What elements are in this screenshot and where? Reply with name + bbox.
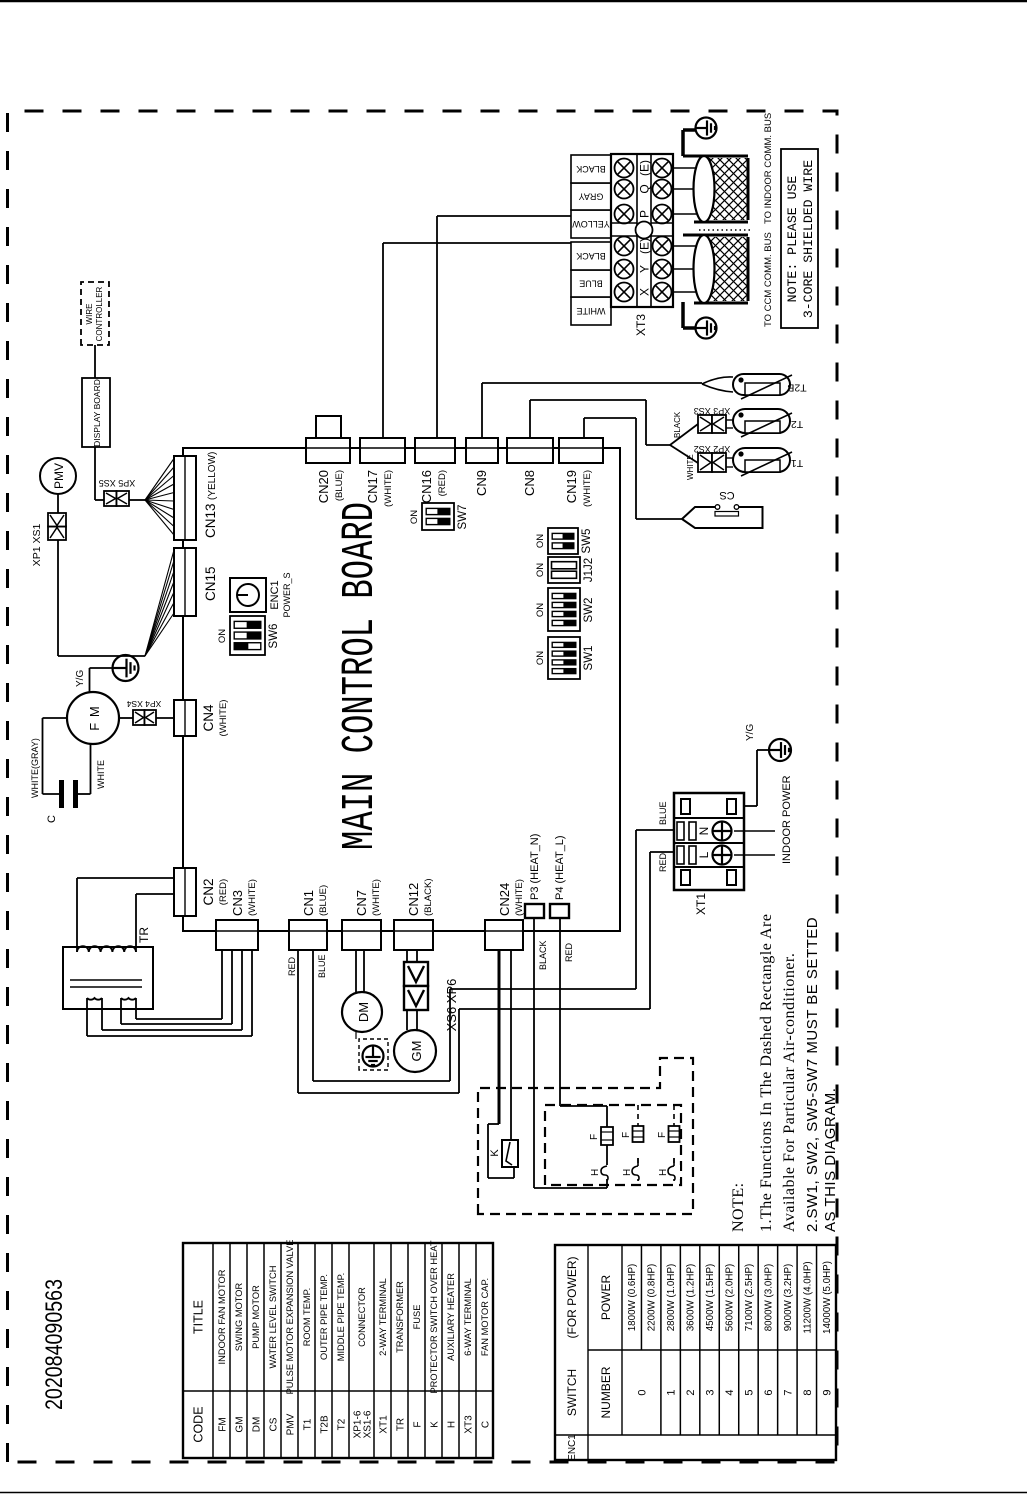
svg-text:SW6: SW6	[268, 624, 280, 649]
svg-text:F: F	[413, 1421, 424, 1427]
svg-text:BLACK: BLACK	[538, 940, 548, 970]
svg-text:POWER: POWER	[599, 1275, 613, 1321]
svg-text:X: X	[638, 288, 652, 296]
svg-text:ON: ON	[535, 651, 546, 665]
svg-text:5600W (2.0HP): 5600W (2.0HP)	[725, 1264, 736, 1332]
svg-text:(WHITE): (WHITE)	[247, 879, 258, 916]
svg-text:WHITE: WHITE	[577, 306, 606, 316]
svg-text:P3 (HEAT_N): P3 (HEAT_N)	[529, 834, 541, 900]
svg-text:BLUE: BLUE	[658, 801, 668, 825]
svg-text:DISPLAY BOARD: DISPLAY BOARD	[92, 379, 102, 447]
svg-text:RED: RED	[658, 852, 668, 872]
svg-text:SWITCH: SWITCH	[565, 1369, 579, 1416]
svg-text:BLACK: BLACK	[576, 164, 606, 174]
svg-text:WHITE: WHITE	[686, 454, 695, 480]
svg-text:ON: ON	[217, 629, 228, 643]
svg-text:SW1: SW1	[583, 646, 595, 671]
svg-text:T2B: T2B	[787, 382, 806, 394]
svg-text:SW7: SW7	[457, 505, 469, 530]
svg-text:SWING MOTOR: SWING MOTOR	[234, 1282, 244, 1351]
svg-text:Y: Y	[638, 265, 652, 273]
svg-text:TRANSFORMER: TRANSFORMER	[395, 1281, 405, 1353]
svg-text:DM: DM	[356, 1002, 371, 1022]
svg-text:(WHITE): (WHITE)	[218, 700, 229, 737]
svg-text:H: H	[622, 1169, 633, 1176]
svg-text:3-CORE SHIELDED WIRE: 3-CORE SHIELDED WIRE	[801, 160, 816, 318]
svg-text:ENC1: ENC1	[567, 1434, 578, 1461]
svg-text:1800W (0.6HP): 1800W (0.6HP)	[627, 1264, 638, 1332]
svg-text:ON: ON	[535, 563, 546, 577]
svg-text:CN8: CN8	[522, 470, 537, 496]
svg-text:AUXILIARY HEATER: AUXILIARY HEATER	[446, 1273, 456, 1361]
svg-text:XT1: XT1	[694, 893, 708, 915]
svg-text:GRAY: GRAY	[579, 192, 604, 202]
svg-text:XP1 XS1: XP1 XS1	[31, 524, 43, 567]
svg-text:TO INDOOR COMM. BUS: TO INDOOR COMM. BUS	[763, 113, 774, 224]
svg-text:NOTE:: NOTE:	[730, 1182, 747, 1232]
svg-text:YELLOW: YELLOW	[572, 219, 610, 229]
svg-text:CN3: CN3	[230, 890, 245, 916]
svg-text:(YELLOW): (YELLOW)	[207, 452, 218, 500]
svg-text:J1J2: J1J2	[583, 558, 595, 582]
svg-text:(WHITE): (WHITE)	[514, 879, 525, 916]
svg-text:CN15: CN15	[203, 566, 218, 601]
svg-text:SW5: SW5	[581, 529, 593, 554]
svg-text:SW2: SW2	[583, 598, 595, 623]
svg-text:(E): (E)	[638, 160, 652, 176]
svg-text:C: C	[46, 815, 58, 823]
svg-text:BLACK: BLACK	[673, 411, 682, 438]
svg-text:NOTE: PLEASE USE: NOTE: PLEASE USE	[785, 176, 800, 303]
svg-text:NUMBER: NUMBER	[599, 1366, 613, 1418]
svg-text:K: K	[430, 1421, 441, 1428]
svg-text:3: 3	[705, 1389, 717, 1395]
svg-text:(WHITE): (WHITE)	[383, 470, 394, 507]
svg-text:TITLE: TITLE	[192, 1300, 206, 1334]
svg-text:T2B: T2B	[320, 1415, 331, 1434]
svg-text:CONNECTOR: CONNECTOR	[357, 1287, 367, 1347]
svg-text:XP3 XS3: XP3 XS3	[694, 406, 731, 416]
svg-text:2200W (0.8HP): 2200W (0.8HP)	[647, 1264, 658, 1332]
svg-text:14000W (5.0HP): 14000W (5.0HP)	[822, 1261, 833, 1334]
svg-text:PMV: PMV	[52, 463, 66, 489]
svg-text:H: H	[590, 1169, 601, 1176]
svg-text:AS THIS DIAGRAM.: AS THIS DIAGRAM.	[822, 1088, 839, 1232]
svg-text:BLUE: BLUE	[579, 279, 603, 289]
svg-text:CN13: CN13	[203, 503, 218, 538]
svg-text:2.SW1, SW2, SW5-SW7 MUST BE SE: 2.SW1, SW2, SW5-SW7 MUST BE SETTED	[804, 917, 821, 1232]
svg-text:2-WAY TERMINAL: 2-WAY TERMINAL	[378, 1278, 388, 1356]
svg-text:202084090563: 202084090563	[41, 1279, 68, 1410]
svg-text:FM: FM	[218, 1417, 229, 1431]
svg-text:CN24: CN24	[497, 883, 512, 916]
svg-text:ON: ON	[535, 603, 546, 617]
svg-text:Q: Q	[638, 184, 652, 193]
svg-text:L: L	[697, 851, 711, 858]
svg-text:FUSE: FUSE	[412, 1305, 422, 1330]
svg-text:T2: T2	[791, 418, 803, 430]
svg-text:DM: DM	[252, 1417, 263, 1433]
svg-text:Y/G: Y/G	[75, 670, 86, 687]
svg-text:2800W (1.0HP): 2800W (1.0HP)	[666, 1264, 677, 1332]
svg-text:Y/G: Y/G	[745, 724, 756, 741]
svg-text:F: F	[621, 1132, 632, 1138]
svg-text:CN20: CN20	[316, 470, 331, 503]
svg-text:MIDDLE PIPE TEMP.: MIDDLE PIPE TEMP.	[336, 1273, 346, 1362]
svg-text:8: 8	[802, 1389, 814, 1395]
svg-text:(WHITE): (WHITE)	[582, 470, 593, 507]
svg-text:GM: GM	[235, 1416, 246, 1432]
svg-text:T2: T2	[337, 1418, 348, 1430]
svg-text:H: H	[658, 1169, 669, 1176]
svg-text:(RED): (RED)	[218, 879, 229, 905]
svg-text:XS1-6: XS1-6	[363, 1410, 374, 1438]
svg-text:K: K	[489, 1149, 501, 1157]
svg-text:(BLACK): (BLACK)	[423, 879, 434, 916]
svg-text:POWER_S: POWER_S	[282, 572, 292, 617]
svg-text:9: 9	[821, 1389, 833, 1395]
svg-text:(BLUE): (BLUE)	[318, 885, 329, 916]
svg-text:(WHITE): (WHITE)	[371, 879, 382, 916]
svg-text:MAIN CONTROL BOARD: MAIN CONTROL BOARD	[335, 502, 386, 850]
svg-text:6-WAY TERMINAL: 6-WAY TERMINAL	[463, 1278, 473, 1356]
svg-text:INDOOR POWER: INDOOR POWER	[781, 775, 793, 864]
svg-text:ENC1: ENC1	[269, 580, 281, 609]
svg-text:ON: ON	[409, 510, 420, 524]
svg-text:PMV: PMV	[286, 1413, 297, 1435]
svg-text:3600W (1.2HP): 3600W (1.2HP)	[686, 1264, 697, 1332]
svg-text:C: C	[481, 1421, 492, 1428]
svg-text:4: 4	[724, 1389, 736, 1395]
svg-text:ON: ON	[535, 534, 546, 548]
svg-text:T1: T1	[791, 457, 803, 469]
svg-text:FAN MOTOR CAP.: FAN MOTOR CAP.	[480, 1278, 490, 1356]
svg-text:CN9: CN9	[474, 470, 489, 496]
svg-text:P4 (HEAT_L): P4 (HEAT_L)	[554, 835, 566, 900]
svg-text:XT3: XT3	[634, 314, 648, 336]
svg-text:F M: F M	[87, 705, 102, 730]
svg-text:8000W (3.0HP): 8000W (3.0HP)	[763, 1264, 774, 1332]
svg-text:TO CCM COMM. BUS: TO CCM COMM. BUS	[763, 232, 774, 327]
svg-text:BLACK: BLACK	[576, 251, 606, 261]
svg-text:WATER LEVEL SWITCH: WATER LEVEL SWITCH	[268, 1266, 278, 1369]
svg-text:4500W (1.5HP): 4500W (1.5HP)	[705, 1264, 716, 1332]
svg-text:XT3: XT3	[464, 1415, 475, 1434]
svg-text:T1: T1	[303, 1418, 314, 1430]
svg-text:P: P	[638, 210, 652, 218]
svg-text:XT1: XT1	[379, 1415, 390, 1434]
svg-text:PULSE MOTOR EXPANSION VALVE: PULSE MOTOR EXPANSION VALVE	[285, 1240, 295, 1395]
svg-text:CN1: CN1	[301, 890, 316, 916]
svg-text:CODE: CODE	[192, 1406, 206, 1442]
svg-text:XP4 XS4: XP4 XS4	[126, 699, 161, 709]
svg-text:9000W (3.2HP): 9000W (3.2HP)	[783, 1264, 794, 1332]
svg-text:WIRE: WIRE	[85, 304, 94, 325]
svg-text:CONTROLLER: CONTROLLER	[95, 286, 104, 341]
svg-text:RED: RED	[564, 942, 574, 962]
svg-text:WHITE(GRAY): WHITE(GRAY)	[30, 738, 40, 798]
svg-text:H: H	[447, 1421, 458, 1428]
svg-text:(FOR POWER): (FOR POWER)	[565, 1257, 579, 1339]
svg-text:(RED): (RED)	[437, 470, 448, 496]
svg-text:6: 6	[763, 1389, 775, 1395]
svg-text:CN12: CN12	[406, 883, 421, 916]
svg-text:INDOOR FAN MOTOR: INDOOR FAN MOTOR	[217, 1269, 227, 1364]
svg-text:PUMP MOTOR: PUMP MOTOR	[251, 1285, 261, 1349]
svg-text:XP2 XS2: XP2 XS2	[694, 444, 731, 454]
svg-text:OUTER PIPE TEMP.: OUTER PIPE TEMP.	[319, 1274, 329, 1360]
svg-text:CN2: CN2	[201, 878, 216, 905]
svg-text:(BLUE): (BLUE)	[334, 470, 345, 501]
svg-text:CN19: CN19	[564, 470, 579, 503]
svg-text:CS: CS	[269, 1417, 280, 1431]
svg-text:ROOM TEMP.: ROOM TEMP.	[302, 1288, 312, 1347]
svg-text:5: 5	[743, 1389, 755, 1395]
svg-text:F: F	[589, 1134, 600, 1140]
svg-text:XP5 XS5: XP5 XS5	[99, 478, 136, 488]
svg-text:7: 7	[782, 1389, 794, 1395]
svg-text:TR: TR	[137, 927, 151, 943]
svg-text:RED: RED	[287, 956, 297, 976]
svg-text:Available For Particular Air-c: Available For Particular Air-conditioner…	[781, 953, 798, 1232]
svg-text:0: 0	[636, 1389, 648, 1395]
svg-text:GM: GM	[409, 1041, 424, 1062]
svg-text:CN4: CN4	[201, 704, 216, 731]
svg-text:XS6 XP6: XS6 XP6	[444, 979, 459, 1032]
svg-text:WHITE: WHITE	[96, 760, 106, 789]
svg-text:CS: CS	[719, 489, 734, 501]
svg-text:N: N	[697, 827, 711, 836]
svg-text:7100W (2.5HP): 7100W (2.5HP)	[744, 1264, 755, 1332]
svg-text:2: 2	[685, 1389, 697, 1395]
svg-text:1.The Functions In The Dashed: 1.The Functions In The Dashed Rectangle …	[758, 914, 775, 1232]
svg-text:11200W (4.0HP): 11200W (4.0HP)	[802, 1261, 813, 1333]
svg-text:CN16: CN16	[419, 470, 434, 503]
svg-text:(E): (E)	[638, 238, 652, 254]
svg-text:CN17: CN17	[365, 470, 380, 503]
svg-text:F: F	[657, 1132, 668, 1138]
svg-text:CN7: CN7	[354, 890, 369, 916]
svg-text:TR: TR	[396, 1418, 407, 1431]
svg-text:BLUE: BLUE	[317, 954, 327, 978]
svg-text:1: 1	[666, 1389, 678, 1395]
svg-text:PROTECTOR SWITCH OVER HEAT: PROTECTOR SWITCH OVER HEAT	[429, 1240, 439, 1393]
